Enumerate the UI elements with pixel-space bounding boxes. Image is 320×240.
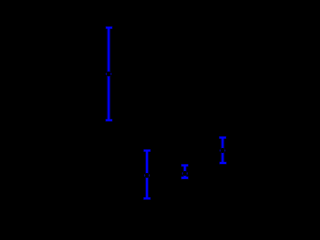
pin end bar (bottom) of wire W1 [105,119,112,122]
pin end bar (bottom) of wire W2 [143,197,151,200]
wire W3 vertical net segment [183,165,187,178]
junction dot J4 on wire W4 [219,148,225,153]
pin end bar (top) of wire W2 [143,149,151,152]
wire W4 vertical net segment [221,138,225,163]
wire W2 vertical net segment [145,151,149,199]
pin end bar (bottom) of wire W4 [219,162,227,165]
junction dot J2 on wire W2 [144,173,150,178]
junction dot J3 on wire W3 [182,171,188,176]
pin end bar (top) of wire W1 [105,26,112,29]
pin end bar (bottom) of wire W3 [181,176,189,179]
wire W1 vertical net segment [107,28,111,121]
junction dot J1 on wire W1 [106,71,112,76]
pin end bar (top) of wire W4 [219,136,227,139]
pin end bar (top) of wire W3 [181,164,189,167]
